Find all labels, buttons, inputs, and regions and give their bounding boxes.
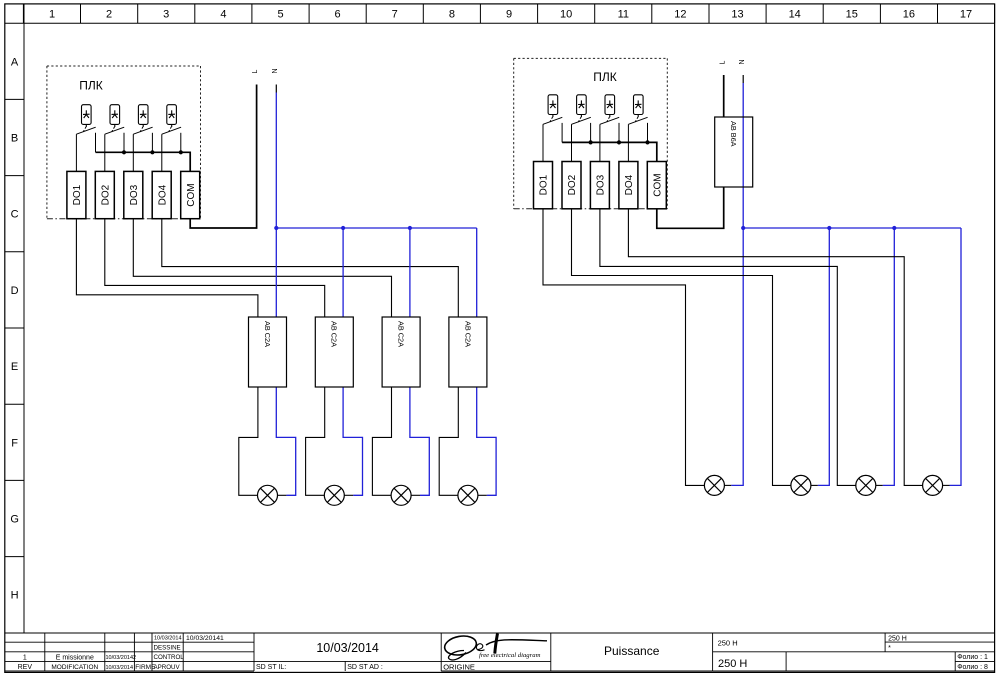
common bus wire to COM — [96, 152, 191, 171]
svg-text:ПЛК: ПЛК — [593, 70, 617, 84]
svg-text:7: 7 — [392, 8, 398, 20]
neutral bus (right) — [743, 227, 961, 229]
wire neutral drop to lamp E7 — [883, 228, 895, 485]
svg-text:L: L — [252, 70, 259, 74]
svg-text:4: 4 — [220, 8, 226, 20]
svg-text:2: 2 — [106, 8, 112, 20]
svg-text:AB B6A: AB B6A — [729, 121, 738, 147]
svg-text:G: G — [10, 514, 19, 526]
wire N down (right) — [742, 75, 744, 83]
title block — [5, 633, 995, 671]
svg-text:H: H — [11, 590, 19, 602]
wire contact K8 to DO4 — [627, 124, 629, 161]
wire breaker Q4 to lamp E4 — [439, 387, 458, 495]
svg-text:ORIGINE: ORIGINE — [443, 662, 475, 671]
wire DO3 to breaker Q3 — [133, 219, 391, 317]
wire lamp E3 to neutral — [411, 494, 420, 496]
wire DO4 (right) to lamp E8 — [628, 209, 923, 486]
svg-text:10/03/2014: 10/03/2014 — [106, 665, 134, 671]
junction contact K7/bus — [617, 140, 621, 144]
wire neutral drop to lamp E2 — [343, 228, 362, 495]
svg-text:APROUV: APROUV — [154, 664, 181, 671]
neutral bus (left) — [276, 227, 476, 229]
circuit breaker Q2 AB C2A — [315, 317, 353, 387]
svg-text:10/03/2014: 10/03/2014 — [316, 641, 379, 655]
svg-text:E: E — [11, 361, 18, 373]
relay coil K4 — [167, 105, 177, 127]
terminal DO4 — [152, 171, 171, 218]
svg-text:C: C — [11, 209, 19, 221]
contact K4 (NO) — [162, 127, 181, 152]
wire lamp E2 to neutral — [344, 494, 353, 496]
contact K2 (NO) — [105, 127, 124, 152]
wire contact K6 to DO2 — [571, 124, 573, 161]
svg-text:DO4: DO4 — [624, 174, 635, 195]
svg-text:MODIFICATION: MODIFICATION — [51, 664, 98, 671]
svg-text:10/03/2014: 10/03/2014 — [154, 636, 182, 642]
lamp E8 — [923, 475, 943, 495]
svg-text:10: 10 — [560, 8, 572, 20]
column header band — [5, 4, 995, 23]
wire DO1 to breaker Q1 — [76, 219, 258, 317]
wire DO4 to breaker Q4 — [162, 219, 459, 317]
wire L to main breaker — [723, 75, 725, 117]
svg-text:AB C2A: AB C2A — [263, 321, 272, 347]
svg-text:16: 16 — [903, 8, 915, 20]
wire DO2 (right) to lamp E6 — [572, 209, 792, 486]
wire contact K4 to DO4 — [161, 134, 163, 171]
svg-text:6: 6 — [335, 8, 341, 20]
svg-text:AB C2A: AB C2A — [397, 321, 406, 347]
svg-text:F: F — [11, 437, 18, 449]
svg-text:11: 11 — [618, 8, 629, 20]
wire breaker Q1 to lamp E1 — [239, 387, 258, 495]
svg-text:E missionne: E missionne — [56, 655, 94, 662]
svg-text:250 H: 250 H — [718, 639, 738, 648]
junction neutral bus 2 — [341, 226, 345, 230]
svg-text:10/03/20141: 10/03/20141 — [186, 635, 224, 642]
svg-text:CONTROL: CONTROL — [154, 654, 185, 661]
junction contact K2/bus — [122, 150, 126, 154]
terminal COM — [181, 171, 200, 218]
wire neutral drop to lamp E8 — [950, 228, 962, 485]
svg-text:free electrical diagram: free electrical diagram — [479, 652, 541, 659]
svg-text:DO2: DO2 — [100, 184, 111, 205]
wire DO1 (right) to lamp E5 — [543, 209, 705, 486]
wire lamp E8 stub — [942, 484, 949, 486]
svg-text:10/03/20142: 10/03/20142 — [106, 655, 137, 661]
wire neutral drop to lamp E6 — [818, 228, 830, 485]
terminal DO4 (right) — [619, 162, 638, 209]
wire DO3 (right) to lamp E7 — [600, 209, 856, 486]
svg-text:REV: REV — [18, 664, 33, 671]
relay coil K7 — [605, 95, 615, 117]
svg-text:DO3: DO3 — [596, 174, 607, 195]
wire neutral drop to lamp E4 — [477, 228, 496, 495]
wire neutral drop to lamp E5 — [731, 228, 743, 485]
lamp E5 — [704, 475, 724, 495]
svg-text:1: 1 — [49, 8, 55, 20]
terminal DO1 (right) — [534, 162, 553, 209]
svg-text:AB C2A: AB C2A — [463, 321, 472, 347]
svg-text:D: D — [11, 285, 19, 297]
svg-text:12: 12 — [674, 8, 686, 20]
wire contact K1 to DO1 — [75, 134, 77, 171]
wire main breaker to COM (right) — [657, 187, 724, 228]
junction neutral/drop 1 — [741, 226, 745, 230]
PLC block 1 dashed enclosure — [47, 66, 201, 219]
svg-text:DO1: DO1 — [72, 184, 83, 205]
wire contact K2 to DO2 — [104, 134, 106, 171]
wire breaker Q3 to lamp E3 — [372, 387, 391, 495]
svg-text:COM: COM — [186, 183, 197, 206]
svg-text:9: 9 — [506, 8, 512, 20]
wire neutral drop to lamp E3 — [410, 228, 429, 495]
terminal DO3 (right) — [590, 162, 609, 209]
lamp E7 — [856, 475, 876, 495]
contact K5 (NO) — [543, 117, 562, 142]
wire contact K5 to DO1 — [542, 124, 544, 161]
svg-text:250 H: 250 H — [888, 635, 907, 642]
svg-text:13: 13 — [731, 8, 743, 20]
junction contact K6/bus — [589, 140, 593, 144]
terminal DO1 — [67, 171, 86, 218]
lamp E6 — [791, 475, 811, 495]
relay coil K6 — [577, 95, 587, 117]
svg-text:DO2: DO2 — [567, 174, 578, 195]
contact K3 (NO) — [133, 127, 152, 152]
contact K7 (NO) — [600, 117, 619, 142]
svg-text:DO1: DO1 — [539, 174, 550, 195]
svg-text:Фолио : 1: Фолио : 1 — [957, 654, 988, 661]
svg-text:N: N — [272, 68, 279, 73]
svg-text:8: 8 — [449, 8, 455, 20]
lamp E4 — [458, 485, 478, 505]
relay coil K8 — [634, 95, 644, 117]
terminal COM (right) — [647, 162, 666, 209]
contact K6 (NO) — [572, 117, 591, 142]
wire neutral drop to lamp E1 — [276, 228, 295, 495]
junction contact K4/bus — [179, 150, 183, 154]
wire N down — [275, 85, 277, 93]
svg-text:15: 15 — [846, 8, 858, 20]
svg-text:COM: COM — [652, 173, 663, 196]
wire lamp E5 stub — [724, 484, 731, 486]
wire contact K7 to DO3 — [599, 124, 601, 161]
terminal DO2 (right) — [562, 162, 581, 209]
svg-text:DO4: DO4 — [157, 184, 168, 205]
circuit breaker Q3 AB C2A — [382, 317, 420, 387]
row header band — [5, 4, 24, 633]
wire lamp E6 stub — [811, 484, 818, 486]
relay coil K1 — [82, 105, 92, 127]
circuit breaker Q1 AB C2A — [249, 317, 287, 387]
svg-text:DESSINE: DESSINE — [154, 645, 181, 652]
svg-text:SD ST AD :: SD ST AD : — [347, 664, 383, 671]
relay coil K3 — [138, 105, 148, 127]
main circuit breaker QF1 AB B6A — [715, 117, 753, 187]
junction neutral bus 1 — [274, 226, 278, 230]
svg-text:1: 1 — [23, 655, 27, 662]
common bus wire to COM (right) — [562, 142, 657, 161]
svg-text:3: 3 — [163, 8, 169, 20]
svg-text:B: B — [11, 133, 18, 145]
svg-text:DO3: DO3 — [129, 184, 140, 205]
junction neutral bus 3 — [408, 226, 412, 230]
svg-text:AB C2A: AB C2A — [330, 321, 339, 347]
junction contact K8/bus — [645, 140, 649, 144]
svg-text:*: * — [888, 645, 891, 652]
wire DO2 to breaker Q2 — [105, 219, 325, 317]
junction contact K3/bus — [150, 150, 154, 154]
terminal DO2 — [95, 171, 114, 218]
svg-text:17: 17 — [960, 8, 972, 20]
svg-text:5: 5 — [277, 8, 283, 20]
svg-text:ПЛК: ПЛК — [79, 79, 103, 93]
wire lamp E7 stub — [876, 484, 883, 486]
lamp E2 — [324, 485, 344, 505]
junction neutral/drop 2 — [827, 226, 831, 230]
wire L down to COM — [190, 85, 256, 229]
junction neutral/drop 3 — [892, 226, 896, 230]
svg-text:Фолио : 8: Фолио : 8 — [957, 664, 988, 671]
svg-text:N: N — [739, 59, 746, 64]
wire contact K3 to DO3 — [132, 134, 134, 171]
title block texts — [18, 635, 988, 671]
svg-text:A: A — [11, 56, 19, 68]
svg-text:14: 14 — [789, 8, 801, 20]
relay coil K2 — [110, 105, 120, 127]
relay coil K5 — [548, 95, 558, 117]
lamp E3 — [391, 485, 411, 505]
contact K1 (NO) — [76, 127, 95, 152]
wire lamp E4 to neutral — [478, 494, 487, 496]
svg-text:SD ST IL:: SD ST IL: — [256, 664, 286, 671]
QET logo — [443, 634, 547, 660]
PLC block 2 dashed enclosure — [514, 58, 668, 208]
svg-text:Puissance: Puissance — [604, 644, 660, 658]
wire lamp E1 to neutral — [277, 494, 286, 496]
svg-text:250 H: 250 H — [718, 658, 747, 670]
lamp E1 — [258, 485, 278, 505]
circuit breaker Q4 AB C2A — [449, 317, 487, 387]
terminal DO3 — [124, 171, 143, 218]
contact K8 (NO) — [628, 117, 647, 142]
svg-text:L: L — [719, 61, 726, 65]
wire breaker Q2 to lamp E2 — [306, 387, 325, 495]
